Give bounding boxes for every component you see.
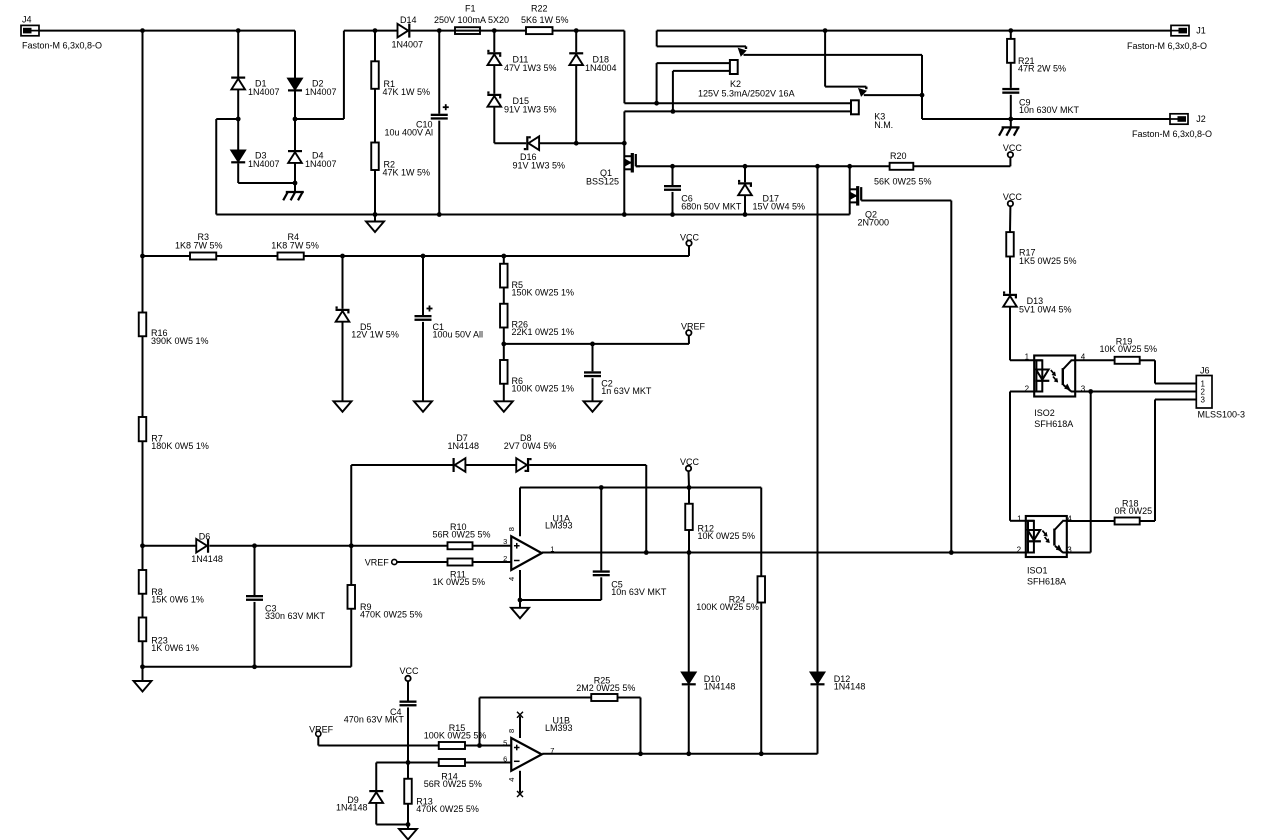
svg-text:3: 3 [503, 537, 507, 546]
svg-text:BSS125: BSS125 [586, 176, 619, 186]
svg-text:ISO1: ISO1 [1027, 566, 1048, 576]
svg-text:VCC: VCC [680, 232, 700, 242]
svg-text:1K8 7W 5%: 1K8 7W 5% [175, 241, 223, 251]
svg-text:J6: J6 [1200, 365, 1210, 375]
svg-text:ISO2: ISO2 [1034, 408, 1055, 418]
svg-text:SFH618A: SFH618A [1034, 419, 1073, 429]
svg-text:47K 1W 5%: 47K 1W 5% [383, 87, 431, 97]
svg-text:125V 5.3mA/2502V 16A: 125V 5.3mA/2502V 16A [698, 88, 795, 98]
svg-text:1: 1 [1025, 353, 1030, 362]
svg-text:10n 630V MKT: 10n 630V MKT [1019, 105, 1080, 115]
svg-text:VCC: VCC [1003, 192, 1023, 202]
svg-text:3: 3 [1067, 545, 1072, 554]
svg-text:1N4007: 1N4007 [305, 159, 337, 169]
svg-text:Faston-M 6,3x0,8-O: Faston-M 6,3x0,8-O [1127, 41, 1207, 51]
svg-text:1K 0W25 5%: 1K 0W25 5% [433, 577, 486, 587]
svg-text:15K 0W6 1%: 15K 0W6 1% [151, 595, 204, 605]
svg-text:VCC: VCC [400, 666, 420, 676]
svg-text:56R 0W25 5%: 56R 0W25 5% [433, 530, 491, 540]
svg-text:1N4148: 1N4148 [448, 441, 480, 451]
svg-text:8: 8 [507, 527, 516, 531]
svg-text:1N4148: 1N4148 [336, 803, 368, 813]
svg-text:5K6 1W 5%: 5K6 1W 5% [521, 15, 569, 25]
svg-text:470K 0W25 5%: 470K 0W25 5% [416, 804, 479, 814]
svg-text:330n 63V MKT: 330n 63V MKT [265, 611, 326, 621]
svg-text:VCC: VCC [1003, 143, 1023, 153]
svg-text:R22: R22 [531, 4, 548, 14]
svg-text:VREF: VREF [681, 322, 706, 332]
svg-text:47R 2W 5%: 47R 2W 5% [1018, 63, 1066, 73]
svg-text:100K 0W25 5%: 100K 0W25 5% [696, 602, 759, 612]
svg-text:VCC: VCC [680, 457, 700, 467]
svg-text:390K 0W5 1%: 390K 0W5 1% [151, 336, 209, 346]
svg-text:5V1 0W4 5%: 5V1 0W4 5% [1019, 305, 1072, 315]
svg-text:1K 0W6 1%: 1K 0W6 1% [151, 643, 199, 653]
svg-text:2M2 0W25 5%: 2M2 0W25 5% [576, 683, 635, 693]
svg-text:10K 0W25 5%: 10K 0W25 5% [1100, 344, 1158, 354]
svg-text:J4: J4 [22, 15, 32, 25]
svg-text:0R 0W25: 0R 0W25 [1115, 506, 1153, 516]
svg-text:10n 63V MKT: 10n 63V MKT [611, 587, 667, 597]
svg-text:100u 50V All: 100u 50V All [433, 330, 484, 340]
svg-text:1N4007: 1N4007 [392, 40, 424, 50]
svg-text:F1: F1 [465, 4, 476, 14]
svg-text:100K 0W25 1%: 100K 0W25 1% [512, 383, 575, 393]
svg-text:22K1 0W25 1%: 22K1 0W25 1% [512, 327, 575, 337]
svg-text:2N7000: 2N7000 [858, 217, 890, 227]
svg-text:91V 1W3 5%: 91V 1W3 5% [504, 105, 557, 115]
svg-text:J1: J1 [1196, 26, 1206, 36]
svg-text:680n 50V MKT: 680n 50V MKT [681, 201, 742, 211]
svg-text:1N4004: 1N4004 [585, 63, 617, 73]
svg-text:56R 0W25 5%: 56R 0W25 5% [424, 779, 482, 789]
svg-text:1: 1 [1017, 514, 1022, 523]
svg-text:Faston-M 6,3x0,8-O: Faston-M 6,3x0,8-O [22, 41, 102, 51]
svg-text:4: 4 [1067, 514, 1072, 523]
svg-text:SFH618A: SFH618A [1027, 576, 1066, 586]
svg-text:8: 8 [507, 729, 516, 733]
svg-text:150K 0W25 1%: 150K 0W25 1% [512, 288, 575, 298]
svg-text:LM393: LM393 [545, 723, 573, 733]
svg-text:1N4148: 1N4148 [191, 554, 223, 564]
svg-text:1n 63V MKT: 1n 63V MKT [601, 386, 652, 396]
svg-text:91V 1W3 5%: 91V 1W3 5% [513, 161, 566, 171]
svg-text:5: 5 [503, 739, 507, 748]
svg-text:1N4148: 1N4148 [704, 682, 736, 692]
svg-text:56K 0W25 5%: 56K 0W25 5% [874, 176, 932, 186]
svg-text:1K5 0W25 5%: 1K5 0W25 5% [1019, 256, 1077, 266]
svg-text:LM393: LM393 [545, 521, 573, 531]
svg-text:N.M.: N.M. [874, 120, 893, 130]
svg-text:12V 1W 5%: 12V 1W 5% [351, 330, 399, 340]
svg-text:1N4007: 1N4007 [305, 87, 337, 97]
svg-text:6: 6 [503, 755, 507, 764]
svg-text:47V 1W3 5%: 47V 1W3 5% [504, 63, 557, 73]
svg-text:2V7 0W4 5%: 2V7 0W4 5% [504, 441, 557, 451]
svg-text:15V 0W4 5%: 15V 0W4 5% [753, 201, 806, 211]
svg-text:R20: R20 [890, 151, 907, 161]
svg-text:4: 4 [507, 778, 516, 782]
svg-text:250V 100mA 5X20: 250V 100mA 5X20 [434, 15, 509, 25]
svg-text:D14: D14 [400, 15, 417, 25]
svg-text:1N4007: 1N4007 [248, 159, 280, 169]
svg-text:VREF: VREF [365, 557, 390, 567]
svg-text:180K 0W5 1%: 180K 0W5 1% [151, 441, 209, 451]
svg-text:47K 1W 5%: 47K 1W 5% [383, 168, 431, 178]
svg-text:1N4148: 1N4148 [834, 682, 866, 692]
svg-text:100K 0W25 5%: 100K 0W25 5% [424, 731, 487, 741]
svg-text:J2: J2 [1196, 114, 1206, 124]
svg-text:470K 0W25 5%: 470K 0W25 5% [360, 610, 423, 620]
svg-text:1K8 7W 5%: 1K8 7W 5% [271, 241, 319, 251]
svg-text:Faston-M 6,3x0,8-O: Faston-M 6,3x0,8-O [1132, 129, 1212, 139]
svg-text:2: 2 [503, 554, 507, 563]
svg-text:470n 63V MKT: 470n 63V MKT [344, 715, 405, 725]
svg-text:10K 0W25 5%: 10K 0W25 5% [698, 531, 756, 541]
svg-text:D6: D6 [199, 531, 211, 541]
svg-text:3: 3 [1201, 395, 1206, 404]
svg-text:MLSS100-3: MLSS100-3 [1198, 409, 1246, 419]
svg-text:4: 4 [507, 577, 516, 581]
svg-text:1N4007: 1N4007 [248, 87, 280, 97]
svg-text:10u 400V Al: 10u 400V Al [385, 127, 434, 137]
